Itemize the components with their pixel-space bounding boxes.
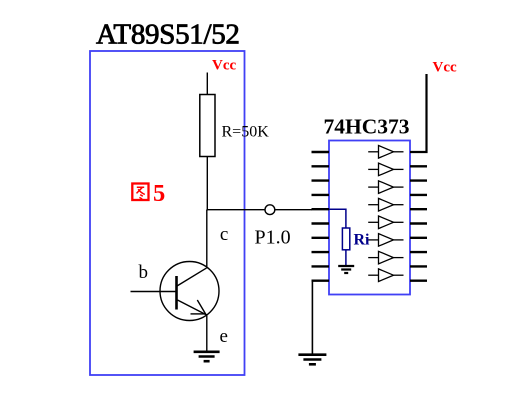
- svg-text:74HC373: 74HC373: [324, 115, 410, 139]
- left pins 1-10: [312, 152, 330, 281]
- svg-text:AT89S51/52: AT89S51/52: [96, 19, 240, 51]
- wire base: [131, 291, 176, 293]
- transistor Q1 emitter arrow barb diagonal: [197, 300, 206, 315]
- svg-text:Ri: Ri: [354, 232, 371, 249]
- ground (Ri): [338, 266, 354, 273]
- resistor R: [200, 95, 215, 157]
- buffers 1-8: [368, 146, 403, 282]
- svg-text:e: e: [220, 326, 228, 347]
- transistor Q1 collector stroke: [177, 268, 206, 286]
- svg-text:c: c: [220, 224, 228, 245]
- ground (emitter): [194, 352, 220, 361]
- transistor Q1 emitter stroke: [178, 300, 207, 315]
- wire P1.0 to Ri: [329, 209, 346, 228]
- svg-text:P1.0: P1.0: [255, 227, 291, 249]
- wire LE pin to ground: [311, 281, 313, 354]
- MCU box U2 (AT89S51/52): [90, 51, 245, 375]
- wire collector: [206, 210, 208, 269]
- resistor Ri: [342, 228, 349, 250]
- wire Ri to ground: [345, 250, 347, 266]
- label 图5 (figure 5): [132, 184, 148, 201]
- right pins 11-20: [410, 166, 427, 280]
- wire Vcc to resistor R: [206, 73, 208, 96]
- latch U1 box (74HC373): [329, 141, 410, 295]
- svg-text:R=50K: R=50K: [222, 124, 270, 141]
- transistor Q1 base bar: [175, 276, 178, 310]
- terminal node P1.0: [265, 205, 275, 215]
- svg-text:Vcc: Vcc: [212, 58, 236, 74]
- transistor Q1 body: [160, 262, 219, 321]
- wire emitter: [206, 314, 208, 352]
- svg-text:b: b: [139, 262, 149, 283]
- ground (latch enable): [298, 355, 326, 365]
- wire Vcc pin (top right): [410, 74, 427, 152]
- svg-text:5: 5: [153, 180, 165, 207]
- transistor Q1 emitter arrow barb horizontal: [191, 313, 206, 315]
- wire resistor to node: [206, 157, 208, 211]
- svg-text:Vcc: Vcc: [433, 60, 457, 76]
- wire node to P1.0 pin: [207, 209, 312, 211]
